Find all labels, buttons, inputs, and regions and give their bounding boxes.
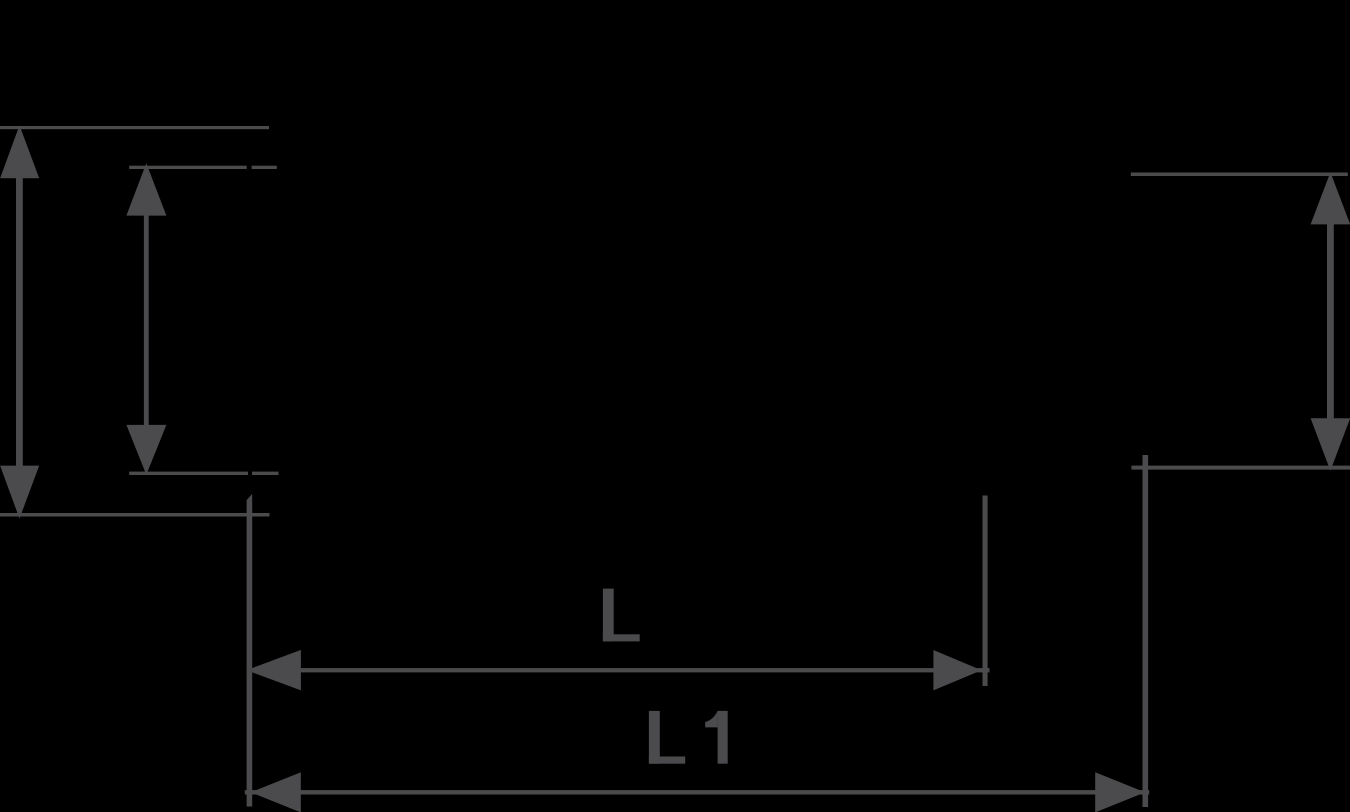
extension line: bottom of outer diameter (left) <box>0 513 270 517</box>
dimension arrow: right vertical double arrow <box>1311 172 1350 471</box>
extension line: right vertical (end of L1) <box>1143 455 1149 807</box>
label L 1 <box>649 711 728 764</box>
extension line: left vertical (through L and L1 start) <box>247 494 253 807</box>
extension line: bottom right <box>1131 466 1350 470</box>
extension line: top of inner diameter (dashed, left) <box>129 166 247 169</box>
dimension arrow: outer diameter vertical double arrow <box>0 125 39 518</box>
extension line: top of outer diameter (left) <box>0 126 269 129</box>
dimension arrow: inner diameter vertical double arrow <box>126 163 166 474</box>
extension line: bottom of inner diameter (dashed, left) <box>129 472 248 475</box>
dimension L1: horizontal line with two arrowheads <box>245 772 1149 812</box>
label L <box>603 589 640 642</box>
dimension L: horizontal line with two arrowheads <box>247 650 990 691</box>
extension line: middle vertical (end of L) <box>983 496 988 687</box>
extension line: top right <box>1131 173 1348 177</box>
